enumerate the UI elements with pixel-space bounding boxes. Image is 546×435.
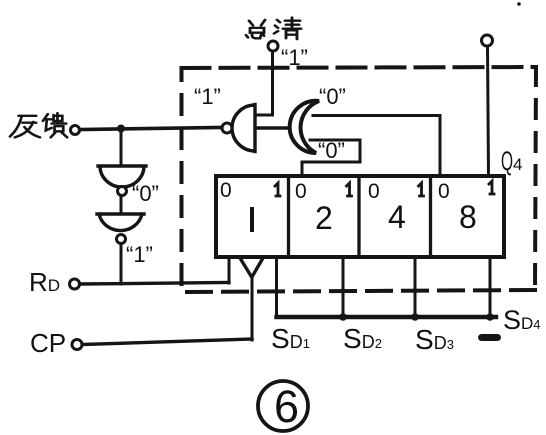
- svg-text:Q: Q: [501, 146, 513, 176]
- svg-text:0: 0: [368, 180, 380, 203]
- svg-text:“1”: “1”: [126, 242, 153, 267]
- label 总清 (master clear): [246, 18, 301, 40]
- or-gate G2 crescent: [290, 101, 319, 153]
- terminal 反馈 input: [71, 126, 80, 135]
- dashed frame IC boundary: [182, 67, 537, 292]
- wire feedback horizontal: [80, 128, 221, 130]
- wire 总清 down: [256, 51, 273, 115]
- register block: [216, 176, 504, 257]
- svg-text:“0”: “0”: [318, 138, 345, 163]
- label cell3 1: [419, 183, 424, 196]
- svg-text:SD2: SD2: [343, 323, 382, 354]
- bubble G1 output: [222, 123, 232, 133]
- cell divider 3-4: [429, 176, 432, 257]
- svg-text:SD3: SD3: [415, 324, 454, 355]
- wire SD2 drop: [342, 257, 345, 317]
- nand-gate G1: [232, 105, 255, 152]
- wire RD riser to block: [228, 257, 231, 283]
- digit 1 weight: [250, 209, 254, 230]
- speck top right: [517, 2, 521, 6]
- svg-text:“0”: “0”: [132, 181, 159, 206]
- terminal CP: [72, 340, 82, 350]
- svg-text:RD: RD: [29, 267, 60, 297]
- bubble G4 output: [117, 235, 126, 244]
- junction SD3: [411, 313, 419, 321]
- label cell1 1: [275, 183, 280, 196]
- terminal 总清: [268, 41, 278, 51]
- wire junction to inverter G3: [120, 128, 123, 166]
- svg-text:8: 8: [459, 199, 477, 235]
- figure number circled 6: [258, 381, 308, 431]
- wire SD4 drop: [489, 257, 492, 317]
- junction SD2: [339, 313, 347, 321]
- wire Q4 vertical: [488, 46, 489, 176]
- wire G2 bottom input fold: [302, 140, 360, 176]
- wire G2 top input: [313, 116, 440, 177]
- inverter G3: [98, 166, 146, 187]
- svg-text:CP: CP: [30, 328, 66, 358]
- svg-text:“1”: “1”: [281, 45, 308, 70]
- wire SD3 drop: [414, 257, 417, 317]
- wire RD horizontal: [80, 283, 229, 285]
- junction feedback node: [117, 125, 125, 133]
- wire CP riser: [251, 276, 254, 340]
- label cell2 1: [347, 183, 352, 196]
- svg-text:SD4: SD4: [503, 305, 541, 335]
- svg-text:0: 0: [438, 180, 450, 203]
- junction SD4: [486, 313, 494, 321]
- wire G3 to G4: [120, 196, 123, 214]
- svg-text:0: 0: [295, 180, 307, 203]
- svg-text:“1”: “1”: [194, 84, 221, 109]
- label cell4 1: [489, 181, 494, 194]
- svg-text:SD1: SD1: [271, 323, 310, 354]
- svg-text:0: 0: [220, 179, 232, 202]
- svg-text:6: 6: [274, 381, 299, 432]
- wire G4 to RD line: [120, 244, 123, 284]
- wire SD1 drop: [275, 257, 278, 317]
- bubble G3 output: [118, 187, 127, 196]
- cell divider 2-3: [357, 176, 360, 257]
- svg-text:4: 4: [388, 199, 406, 235]
- cell divider 1-2: [287, 176, 290, 257]
- terminal top right: [482, 35, 493, 46]
- wire SD bus: [277, 315, 497, 319]
- label 反馈 (feedback): [10, 113, 67, 137]
- terminal RD: [70, 279, 80, 289]
- smudge under SD4: [478, 334, 501, 341]
- wire G1 to G2: [255, 126, 293, 129]
- funnel CP distributor: [240, 258, 263, 276]
- inverter G4: [97, 214, 144, 231]
- svg-text:4: 4: [513, 155, 522, 174]
- svg-text:“0”: “0”: [319, 84, 346, 109]
- svg-text:2: 2: [315, 200, 333, 236]
- wire CP horizontal: [83, 339, 252, 345]
